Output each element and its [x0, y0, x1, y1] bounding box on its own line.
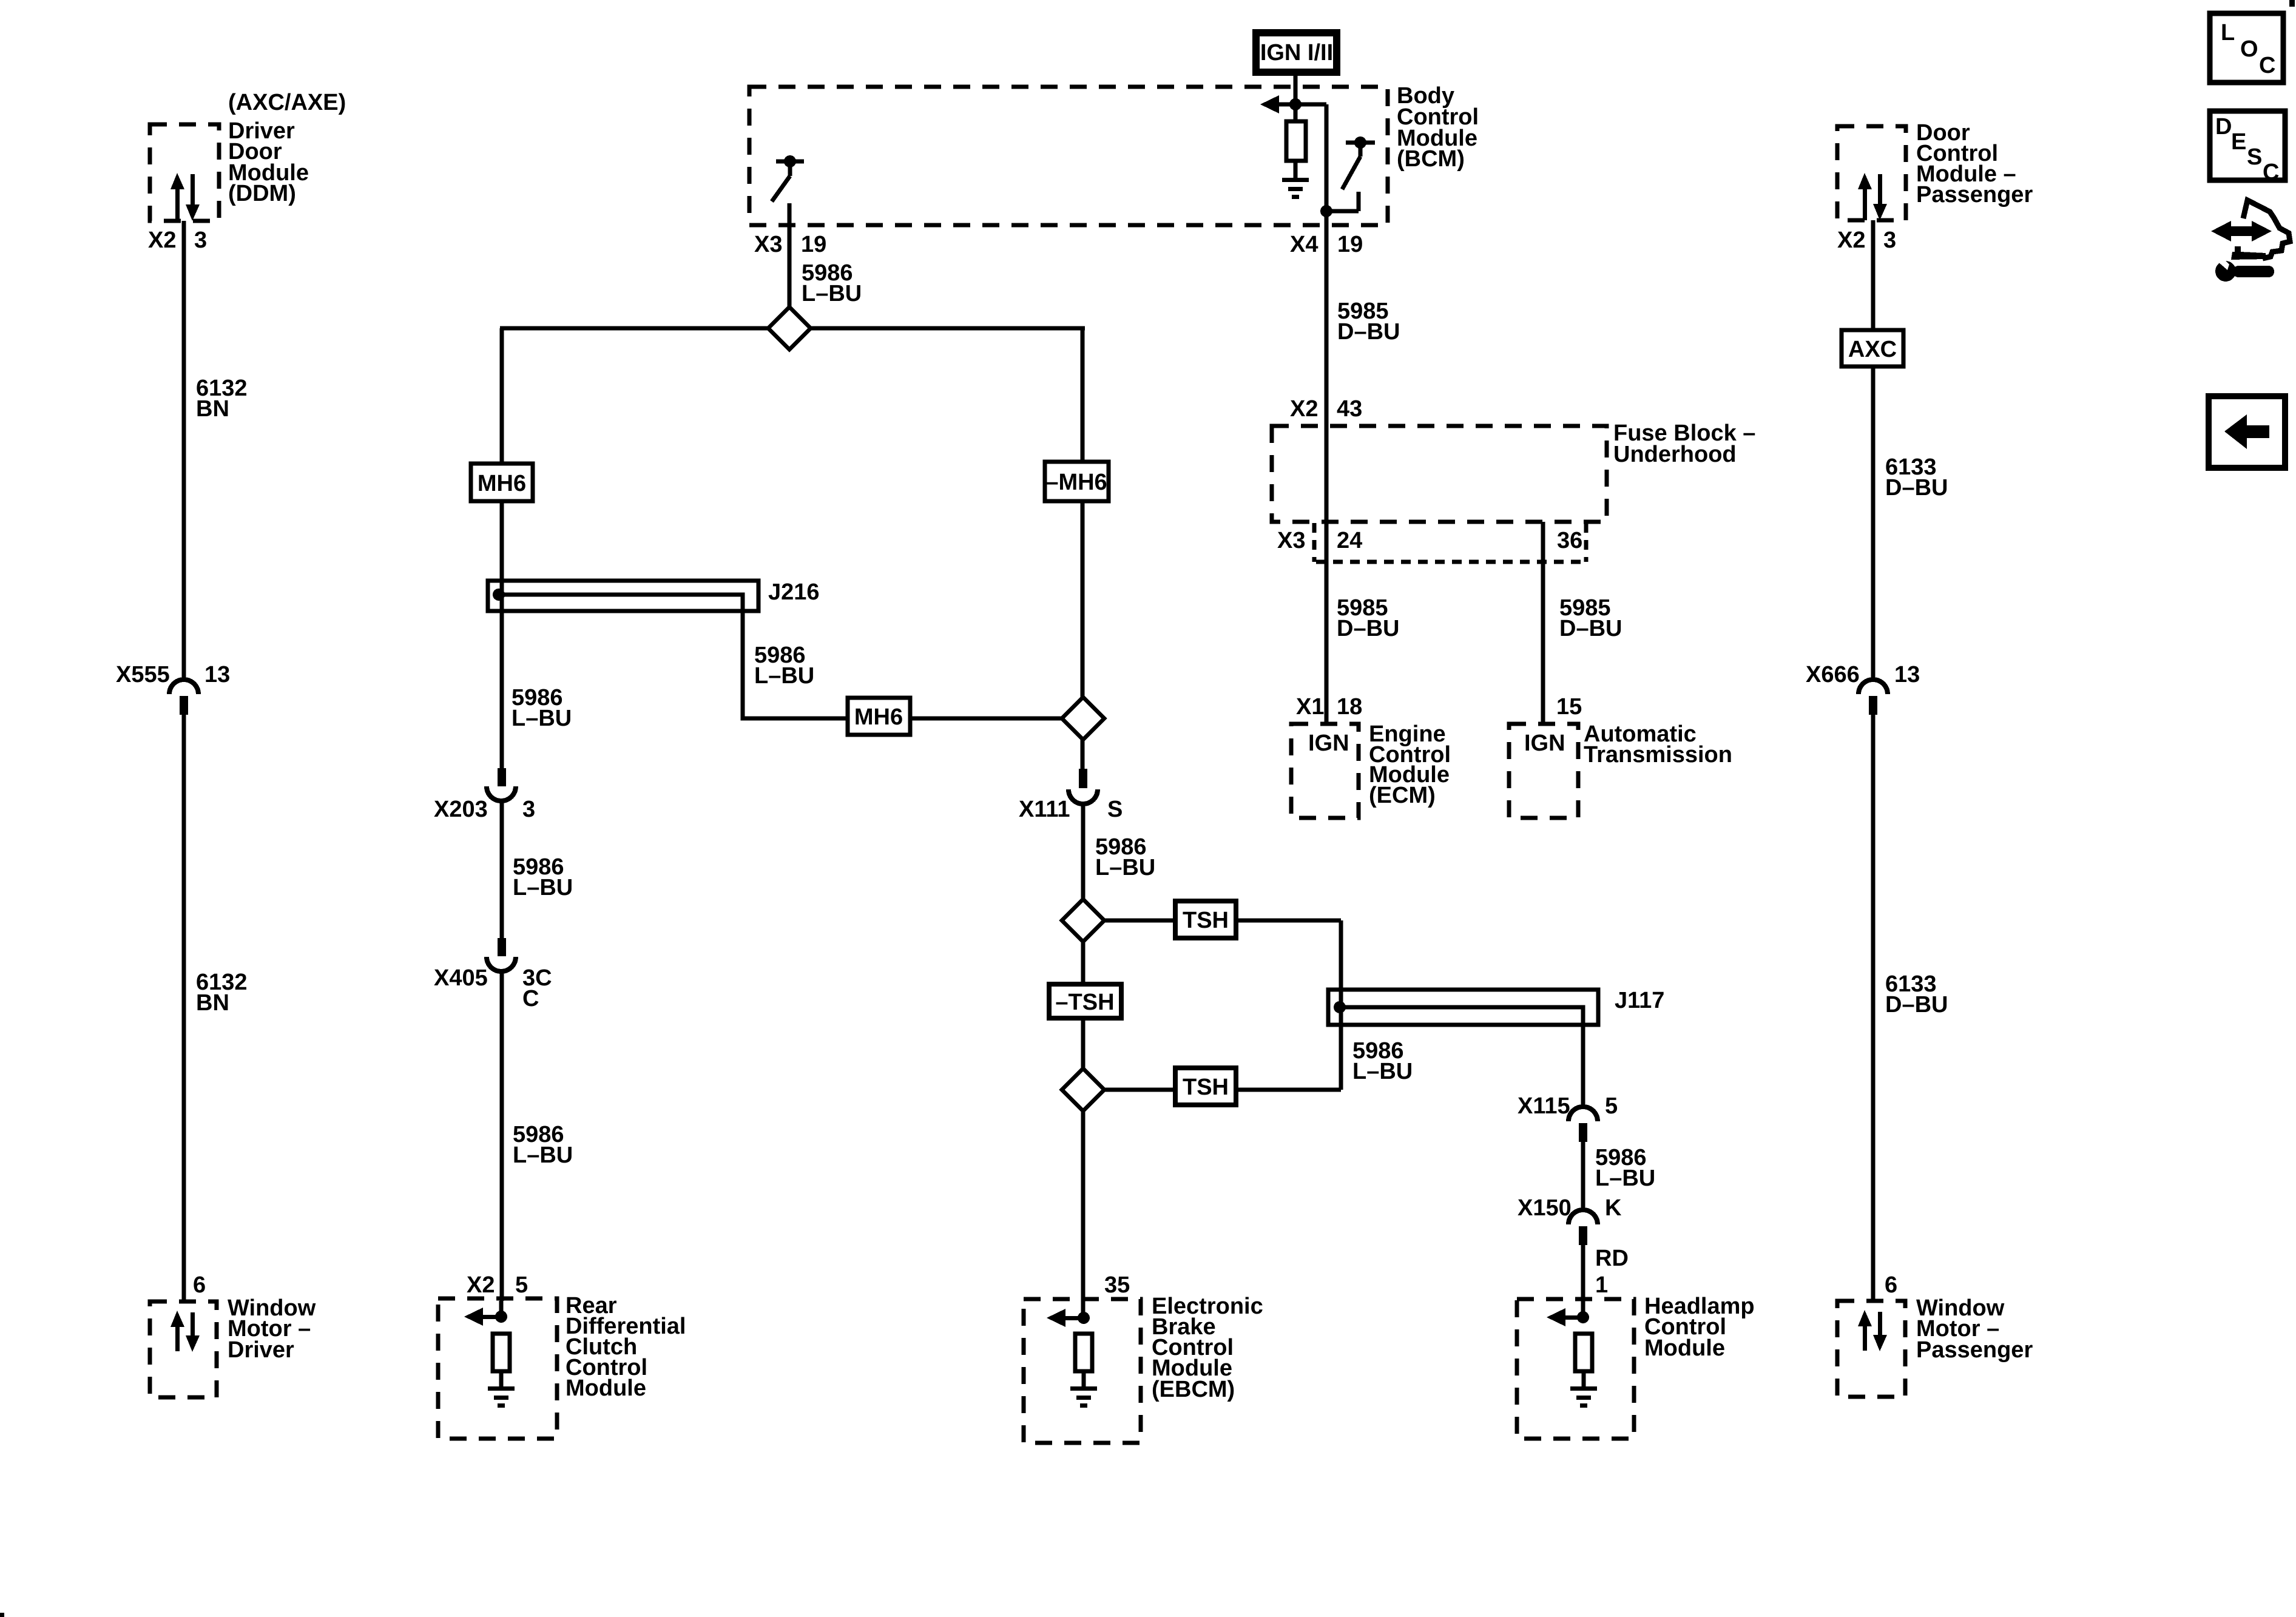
svg-text:RD: RD	[1595, 1246, 1629, 1271]
svg-text:3: 3	[194, 228, 207, 253]
svg-text:X2: X2	[1837, 228, 1865, 253]
RDCM resistor	[493, 1334, 510, 1371]
module box RDCM dashed	[438, 1298, 557, 1439]
module box HCM dashed	[1517, 1299, 1634, 1439]
svg-text:(BCM): (BCM)	[1397, 146, 1465, 172]
wire BCM junction vertical	[1325, 104, 1329, 213]
wire EBCM resistor to ground	[1082, 1371, 1086, 1388]
svg-text:X666: X666	[1806, 662, 1860, 687]
connector X203	[487, 768, 516, 801]
svg-text:X3: X3	[1277, 528, 1305, 553]
svg-text:D–BU: D–BU	[1885, 992, 1948, 1018]
HCM dot	[1577, 1311, 1589, 1323]
BCM right switch dot	[1354, 137, 1366, 149]
svg-text:(DDM): (DDM)	[228, 181, 296, 206]
wire BCM arrow line	[1279, 103, 1326, 107]
svg-text:3: 3	[522, 797, 535, 822]
svg-text:X150: X150	[1518, 1195, 1572, 1221]
svg-text:L: L	[2221, 20, 2235, 46]
HCM resistor	[1575, 1334, 1592, 1371]
wire top horizontal 5986	[500, 326, 1085, 331]
module box Window Motor Driver dashed	[150, 1301, 217, 1397]
svg-text:L–BU: L–BU	[1595, 1166, 1655, 1191]
module box Window Motor Passenger dashed	[1837, 1301, 1905, 1397]
svg-text:–TSH: –TSH	[1055, 990, 1114, 1015]
svg-text:L–BU: L–BU	[802, 281, 862, 306]
BCM arrow	[1260, 95, 1279, 113]
svg-text:(ECM): (ECM)	[1369, 783, 1436, 808]
svg-text:BN: BN	[196, 396, 229, 422]
EBCM arrow	[1047, 1309, 1065, 1327]
window arrows WMP	[1858, 1310, 1887, 1351]
svg-text:X405: X405	[434, 965, 488, 991]
svg-text:6: 6	[193, 1272, 206, 1298]
RDCM dot	[495, 1311, 507, 1323]
connector X111	[1069, 769, 1098, 804]
harness box -MH6	[1045, 462, 1109, 501]
EBCM resistor	[1075, 1334, 1092, 1371]
svg-text:X1: X1	[1296, 694, 1324, 720]
module box EBCM dashed	[1024, 1299, 1141, 1443]
wire J117 bus internal	[1340, 1007, 1583, 1107]
wire BCM X4-19 down through fuse block to ECM	[1325, 211, 1329, 724]
connector X405	[487, 938, 516, 971]
svg-text:L–BU: L–BU	[1352, 1059, 1413, 1084]
svg-text:X2: X2	[1290, 396, 1318, 422]
svg-text:L–BU: L–BU	[754, 663, 814, 689]
svg-text:Module: Module	[1644, 1335, 1725, 1361]
wire MH6 to J216 and X203	[500, 501, 504, 768]
splice dot J216	[493, 589, 505, 601]
svg-text:D–BU: D–BU	[1337, 319, 1400, 345]
connector X115	[1568, 1107, 1598, 1142]
svg-text:L–BU: L–BU	[513, 875, 573, 900]
wire HCM resistor to ground	[1582, 1371, 1586, 1388]
EBCM dot	[1078, 1312, 1090, 1324]
connector X666	[1859, 680, 1888, 715]
BCM ground	[1282, 178, 1309, 199]
harness box AXC	[1842, 330, 1903, 366]
svg-text:1: 1	[1595, 1272, 1608, 1298]
icon diagnostic connector	[2211, 200, 2290, 282]
svg-text:X111: X111	[1019, 797, 1070, 822]
splice pack J117	[1328, 990, 1598, 1025]
wire X150 to Headlamp module	[1581, 1245, 1585, 1317]
module box DCM Passenger dashed	[1837, 126, 1906, 220]
svg-text:X3: X3	[754, 232, 782, 257]
svg-text:C: C	[2263, 160, 2279, 185]
svg-text:L–BU: L–BU	[513, 1143, 573, 1168]
svg-text:5: 5	[515, 1272, 528, 1298]
BCM junction dot	[1289, 98, 1302, 110]
splice dot J117	[1334, 1001, 1346, 1013]
svg-text:43: 43	[1337, 396, 1362, 422]
wire X111 to EBCM through diamonds	[1081, 803, 1086, 1318]
wire TSH vertical at J117	[1339, 920, 1343, 1090]
svg-text:K: K	[1605, 1195, 1622, 1221]
svg-text:D–BU: D–BU	[1559, 616, 1622, 641]
svg-text:X4: X4	[1290, 232, 1318, 257]
svg-text:X2: X2	[148, 228, 176, 253]
wire X115 to X150	[1581, 1142, 1585, 1210]
wire BCM resistor to ground	[1294, 161, 1298, 180]
svg-text:6: 6	[1885, 1272, 1897, 1298]
BCM left switch	[772, 161, 804, 201]
svg-text:(AXC/AXE): (AXC/AXE)	[228, 90, 346, 115]
svg-text:C: C	[522, 986, 539, 1011]
harness box -TSH	[1049, 984, 1121, 1018]
svg-text:J216: J216	[768, 579, 820, 605]
svg-text:24: 24	[1337, 528, 1362, 553]
svg-text:D: D	[2215, 114, 2232, 140]
fuse block underhood dashed	[1272, 426, 1607, 522]
wire X203 to X405	[500, 800, 504, 938]
wire fuse pin36 to transmission	[1541, 522, 1545, 724]
module box ECM IGN dashed	[1291, 724, 1359, 818]
svg-text:X203: X203	[434, 797, 488, 822]
wire diamond to TSH upper	[1083, 919, 1341, 923]
power feed IGN I/II	[1252, 29, 1340, 76]
svg-text:AXC: AXC	[1848, 337, 1897, 362]
svg-text:TSH: TSH	[1183, 908, 1229, 933]
svg-text:(EBCM): (EBCM)	[1152, 1377, 1235, 1402]
svg-text:18: 18	[1337, 694, 1362, 720]
icon DESC box	[2210, 111, 2285, 185]
svg-text:13: 13	[204, 662, 230, 687]
HCM ground	[1570, 1386, 1597, 1408]
svg-text:5: 5	[1605, 1093, 1618, 1119]
svg-text:Driver: Driver	[228, 1337, 294, 1363]
wire J216 bus internal	[498, 595, 1083, 718]
window arrows DCM-P	[1858, 173, 1887, 220]
svg-text:MH6: MH6	[854, 704, 903, 730]
corner mark bottom left	[0, 1613, 4, 1617]
wire X666 to Window Motor Passenger	[1871, 715, 1876, 1301]
BCM right switch	[1326, 143, 1375, 211]
EBCM ground	[1070, 1386, 1097, 1408]
diamond splice on MH6 wire	[1062, 697, 1104, 740]
corner mark top right	[2289, 0, 2295, 7]
icon back arrow box	[2209, 396, 2285, 468]
svg-text:35: 35	[1104, 1272, 1130, 1298]
wire right branch top to -MH6	[1081, 328, 1085, 462]
window arrows DDM	[171, 173, 200, 221]
BCM left switch dot	[784, 155, 796, 167]
svg-text:3: 3	[1883, 228, 1896, 253]
svg-text:E: E	[2231, 129, 2246, 155]
svg-text:O: O	[2240, 36, 2258, 62]
svg-text:D–BU: D–BU	[1337, 616, 1399, 641]
svg-text:J117: J117	[1615, 988, 1664, 1013]
harness box MH6 lower	[848, 698, 910, 735]
svg-text:Underhood: Underhood	[1613, 442, 1737, 467]
wire AXC to X666	[1871, 366, 1876, 680]
wire IGN feed stub	[1294, 76, 1298, 104]
svg-text:Passenger: Passenger	[1916, 1337, 2033, 1363]
svg-text:MH6: MH6	[478, 471, 526, 496]
svg-text:X2: X2	[467, 1272, 495, 1298]
svg-text:X555: X555	[116, 662, 170, 687]
svg-text:36: 36	[1557, 528, 1582, 553]
svg-text:IGN: IGN	[1524, 731, 1565, 756]
wire X405 to Rear Diff module	[500, 970, 504, 1301]
module box BCM dashed	[749, 87, 1388, 225]
svg-text:S: S	[2247, 144, 2262, 170]
harness box TSH upper	[1175, 901, 1236, 938]
fuse block left stub	[1312, 523, 1317, 562]
wire DCM-P pin3 to AXC	[1871, 220, 1876, 330]
svg-text:19: 19	[801, 232, 826, 257]
module box DDM dashed	[150, 124, 219, 221]
svg-text:19: 19	[1337, 232, 1363, 257]
window arrows WMD	[171, 1311, 200, 1352]
svg-text:TSH: TSH	[1183, 1075, 1229, 1100]
BCM lower junction dot	[1320, 205, 1332, 217]
svg-text:BN: BN	[196, 990, 229, 1016]
connector X555	[169, 680, 198, 715]
svg-text:Transmission: Transmission	[1584, 742, 1732, 768]
RDCM arrow	[464, 1308, 483, 1326]
HCM arrow	[1547, 1308, 1565, 1326]
svg-text:IGN: IGN	[1308, 731, 1349, 756]
diamond splice lower TSH	[1062, 1068, 1104, 1111]
svg-text:L–BU: L–BU	[512, 706, 572, 731]
harness box TSH lower	[1175, 1068, 1236, 1105]
wire DDM pin3 to X555	[182, 221, 186, 680]
svg-text:Module: Module	[566, 1376, 646, 1401]
harness box MH6 left	[471, 464, 533, 501]
svg-text:Passenger: Passenger	[1916, 182, 2033, 208]
diamond splice upper TSH	[1062, 899, 1104, 942]
svg-text:S: S	[1107, 797, 1123, 822]
connector X150	[1568, 1210, 1598, 1245]
diamond splice on top wire	[768, 307, 811, 349]
wire BCM X3-19 down to diamond	[788, 203, 792, 328]
svg-text:X115: X115	[1518, 1093, 1570, 1119]
module box AT IGN dashed	[1509, 724, 1578, 818]
fuse block right stub	[1584, 523, 1589, 562]
RDCM ground	[488, 1386, 515, 1408]
BCM resistor	[1286, 121, 1306, 161]
svg-text:L–BU: L–BU	[1095, 855, 1155, 880]
wire left branch down to MH6	[500, 328, 504, 464]
icon LOC box	[2210, 13, 2283, 83]
wire X555 to Window Motor Driver	[182, 715, 186, 1302]
wire BCM resistor feed	[1294, 104, 1298, 121]
wire RDCM resistor to ground	[499, 1371, 504, 1388]
wire -MH6 down through diamond to X111	[1081, 501, 1085, 769]
fuse block lower edge	[1316, 560, 1587, 564]
svg-text:13: 13	[1894, 662, 1920, 687]
svg-text:D–BU: D–BU	[1885, 475, 1948, 501]
splice pack J216	[488, 581, 758, 611]
svg-text:–MH6: –MH6	[1045, 470, 1107, 495]
svg-text:IGN I/II: IGN I/II	[1260, 40, 1333, 66]
svg-text:C: C	[2259, 53, 2275, 78]
wire stub to RDCM dot	[499, 1301, 504, 1317]
wire diamond to TSH lower	[1083, 1088, 1341, 1092]
svg-text:15: 15	[1556, 694, 1582, 720]
